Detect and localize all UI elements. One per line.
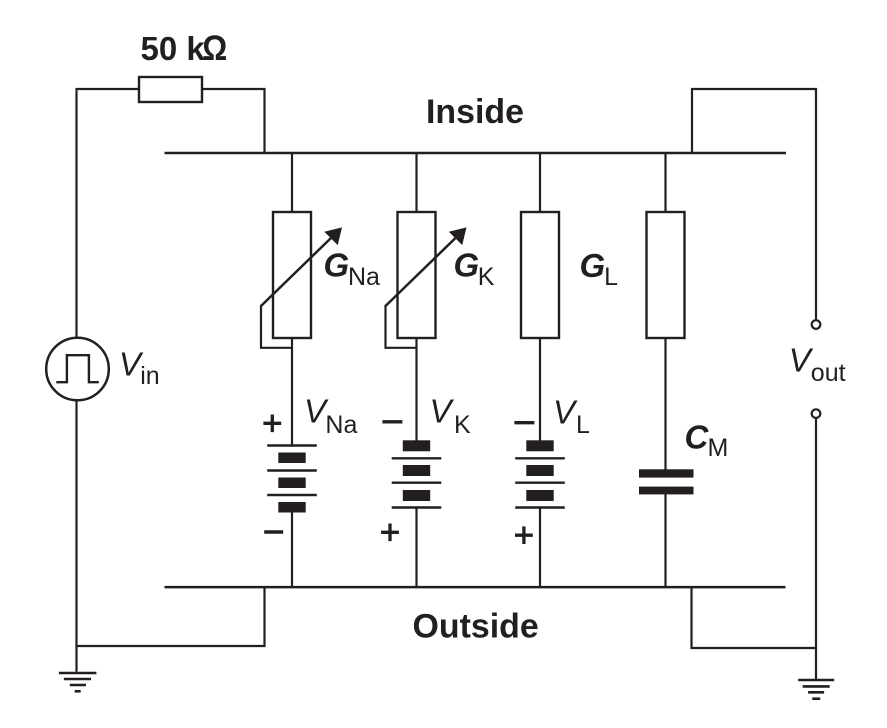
terminal Vout lower [812,409,821,418]
svg-text:Ω: Ω [202,29,227,68]
battery VL [526,440,553,451]
svg-text:G: G [324,247,350,284]
plus sign [263,415,281,433]
resistor GNa body [273,212,311,338]
svg-text:Outside: Outside [413,608,539,646]
resistor GL body [521,212,559,338]
svg-text:M: M [708,434,729,462]
wire [539,153,541,588]
svg-text:K: K [454,411,471,439]
conductance GNa branch [260,153,380,588]
wire [691,88,817,320]
ground (right) [798,680,834,699]
plus sign [515,526,533,544]
svg-text:V: V [553,393,578,430]
ground (left) [59,673,97,691]
wire [75,90,77,338]
minus sign [514,421,534,424]
variable-resistor arrow [386,238,456,306]
svg-text:K: K [478,263,495,291]
wire [415,153,417,588]
resistor body (4th branch) [647,212,685,338]
source Vin [46,338,109,401]
resistor GK body [398,212,436,338]
wire arrow hook [260,305,292,348]
battery VNa [267,446,317,496]
svg-text:in: in [140,362,159,390]
plus sign [381,524,399,542]
svg-text:L: L [604,263,618,291]
wire [75,588,265,646]
svg-text:out: out [811,359,846,387]
minus sign [382,420,402,423]
resistor R 50k [139,77,202,102]
svg-text:50 k: 50 k [141,30,206,67]
battery VK [403,440,430,451]
capacitor CM plates [639,469,694,477]
svg-text:G: G [580,247,606,284]
svg-text:Na: Na [348,263,380,291]
wire [291,153,293,588]
wire [692,588,818,650]
svg-text:V: V [430,392,455,429]
svg-text:G: G [454,247,480,284]
node outside-rail [165,586,786,589]
wire [815,418,817,680]
wire arrow hook [385,305,417,348]
wire [664,153,666,588]
wire [202,88,266,153]
minus sign [264,530,283,533]
conductance GK branch [381,153,495,588]
capacitor CM branch [639,153,728,588]
node inside-rail [165,152,787,155]
svg-text:Inside: Inside [426,93,524,131]
svg-text:L: L [576,411,590,439]
wire [75,400,77,672]
wire [75,88,139,90]
svg-text:Na: Na [325,411,357,439]
terminal Vout upper [812,320,821,329]
conductance GL branch [514,153,618,588]
variable-resistor arrow [261,238,331,306]
svg-text:C: C [685,419,710,456]
